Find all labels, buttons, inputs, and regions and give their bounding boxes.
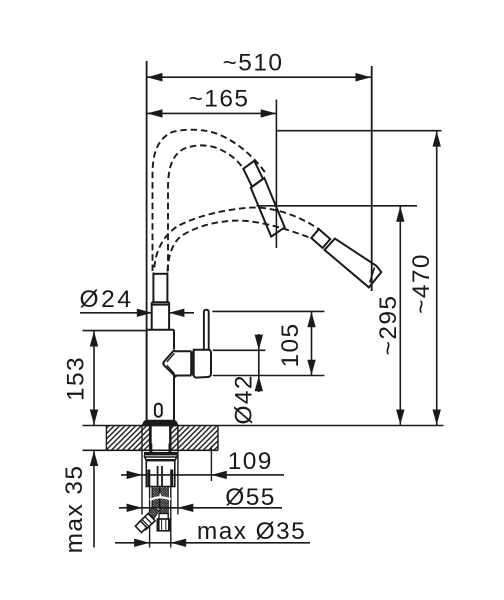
svg-text:~165: ~165 — [189, 86, 250, 113]
extension line: spout max height (top tangent) — [276, 130, 441, 132]
svg-text:109: 109 — [228, 448, 273, 475]
extension line: hole right (max Ø35) — [170, 487, 172, 548]
spray head lower position: tip crease — [370, 267, 375, 282]
dimension max 35 (countertop thickness) — [61, 451, 98, 554]
extension line: right end of ~510 — [371, 66, 373, 291]
extension line: spout outlet height (~295 top) — [257, 205, 418, 207]
dimension Ø42 (outside arrows) — [231, 334, 264, 425]
dimension ~470 — [408, 131, 441, 426]
wedge facet lines — [167, 353, 174, 361]
dimension 153 — [63, 331, 147, 426]
svg-text:105: 105 — [277, 322, 304, 367]
mounting nut — [146, 461, 175, 487]
spray head lower position: collar — [311, 229, 330, 248]
spray head lower position: body with beveled tip — [325, 239, 382, 288]
extension line: lever top — [212, 310, 324, 312]
shank thick bars above flange — [149, 444, 152, 453]
upper hose position (dashed inner curve) — [168, 145, 244, 271]
spout pipe (solid section) — [152, 273, 169, 330]
spray head upper position: collar — [243, 161, 263, 187]
extension line: handle bottom — [213, 375, 325, 377]
dimension ~165 — [147, 86, 276, 118]
dimension max Ø35 — [115, 518, 310, 547]
lever rod — [204, 310, 209, 350]
dimension Ø24 — [80, 286, 195, 317]
dimension Ø55 — [119, 484, 282, 512]
shank tube walls in hole — [151, 426, 170, 445]
faucet body column — [147, 330, 174, 422]
extension line: faucet left edge up to top dims — [146, 61, 148, 330]
supply hoses (braided) — [150, 487, 171, 514]
svg-text:max Ø35: max Ø35 — [197, 518, 306, 545]
logo oval on body — [155, 404, 162, 417]
upper hose position (dashed outer curve) — [153, 130, 267, 271]
dimension 109 — [121, 448, 284, 479]
svg-text:Ø24: Ø24 — [80, 286, 134, 313]
handle wedge faceted nose — [163, 350, 176, 378]
faucet base plate (black) — [142, 420, 178, 426]
extension line: base left (Ø55) — [141, 426, 143, 515]
mounting flange (black bar) — [144, 452, 177, 455]
svg-text:~295: ~295 — [375, 295, 402, 356]
handle wedge plate — [174, 351, 191, 375]
svg-text:Ø55: Ø55 — [225, 484, 276, 511]
dimension ~510 — [147, 50, 371, 82]
left hose diagonal end (braid bend) — [135, 508, 159, 533]
svg-text:Ø42: Ø42 — [231, 374, 258, 425]
lower hose position (dashed upper curve) — [154, 208, 319, 268]
countertop bottom line — [83, 449, 219, 451]
svg-text:~510: ~510 — [223, 50, 284, 77]
right hose fitting collar — [159, 514, 168, 520]
lower hose position (dashed lower curve) — [167, 221, 311, 272]
right hose nut — [157, 519, 170, 531]
hose break mark (white wave) — [150, 497, 171, 500]
left hose end cap — [135, 521, 146, 532]
extension line: ~165 right / spout head — [275, 100, 277, 249]
countertop hatched block left — [106, 426, 149, 451]
svg-text:~470: ~470 — [408, 253, 435, 314]
left hose nut fitting — [139, 514, 155, 530]
extension line: handle top — [213, 349, 266, 351]
countertop hatched block right — [171, 426, 218, 451]
extension line: hole left (max Ø35) — [149, 487, 151, 548]
extension line: base right (Ø55) — [177, 426, 179, 515]
spray head upper position: body — [251, 178, 285, 237]
countertop top surface line — [83, 425, 444, 427]
dimension ~295 — [375, 206, 405, 425]
handle cartridge cylinder — [192, 350, 211, 378]
extension line: 109 right — [210, 446, 212, 481]
svg-text:153: 153 — [63, 356, 90, 401]
flange taper — [144, 455, 177, 460]
svg-text:max 35: max 35 — [61, 465, 88, 554]
dimension 105 — [277, 311, 316, 375]
